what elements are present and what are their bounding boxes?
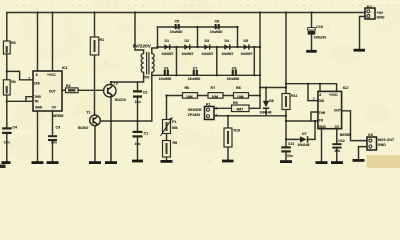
svg-text:+VCC: +VCC xyxy=(47,73,56,77)
svg-text:10n: 10n xyxy=(4,141,10,145)
svg-text:GEIGER: GEIGER xyxy=(188,108,202,112)
svg-text:10M: 10M xyxy=(186,95,193,99)
svg-text:10M: 10M xyxy=(237,95,244,99)
svg-text:R1: R1 xyxy=(100,38,105,42)
svg-text:THR: THR xyxy=(319,111,326,115)
svg-text:THR: THR xyxy=(34,95,41,99)
svg-text:R2: R2 xyxy=(66,84,71,88)
svg-text:R5: R5 xyxy=(173,141,178,145)
svg-text:R3: R3 xyxy=(11,41,16,45)
svg-text:C11: C11 xyxy=(288,142,294,146)
svg-text:ZP1320: ZP1320 xyxy=(188,113,200,117)
svg-text:C8: C8 xyxy=(215,19,220,23)
svg-text:10M: 10M xyxy=(212,95,219,99)
svg-text:C3: C3 xyxy=(56,125,61,129)
svg-text:1N4007: 1N4007 xyxy=(241,52,253,56)
svg-text:10u: 10u xyxy=(135,142,141,146)
svg-text:10u/630: 10u/630 xyxy=(210,30,223,34)
svg-text:C4: C4 xyxy=(12,126,17,130)
svg-text:K1: K1 xyxy=(206,103,211,107)
svg-text:8: 8 xyxy=(36,73,38,77)
svg-text:4M7: 4M7 xyxy=(237,107,244,111)
svg-text:TR1: TR1 xyxy=(143,75,150,79)
svg-text:D8: D8 xyxy=(269,99,274,103)
svg-text:BUZ10: BUZ10 xyxy=(115,98,126,102)
svg-text:22n: 22n xyxy=(287,154,293,158)
svg-text:10n/630: 10n/630 xyxy=(159,77,172,81)
svg-text:GND: GND xyxy=(319,125,327,129)
svg-text:50k: 50k xyxy=(172,126,178,130)
svg-text:GND: GND xyxy=(377,15,385,19)
svg-text:MO2 OUT: MO2 OUT xyxy=(378,138,395,142)
svg-text:C2: C2 xyxy=(143,91,148,95)
svg-text:8: 8 xyxy=(319,93,321,97)
svg-text:DIS: DIS xyxy=(34,81,40,85)
svg-text:10n: 10n xyxy=(334,149,340,153)
svg-text:7: 7 xyxy=(28,76,30,80)
svg-text:DIS: DIS xyxy=(319,99,325,103)
svg-text:1N4007: 1N4007 xyxy=(202,52,214,56)
svg-text:C6: C6 xyxy=(164,66,169,70)
svg-text:K3: K3 xyxy=(368,133,373,137)
svg-text:7: 7 xyxy=(313,97,315,101)
svg-text:GND: GND xyxy=(35,106,43,110)
svg-text:K2: K2 xyxy=(367,5,372,9)
svg-text:NE555: NE555 xyxy=(340,133,351,137)
svg-text:R6: R6 xyxy=(185,86,190,90)
svg-text:D1: D1 xyxy=(165,39,170,43)
svg-text:C7: C7 xyxy=(193,66,198,70)
svg-text:C1: C1 xyxy=(144,132,149,136)
svg-text:R4: R4 xyxy=(11,80,16,84)
svg-text:D3: D3 xyxy=(205,39,210,43)
svg-text:C5: C5 xyxy=(175,19,180,23)
svg-text:R9: R9 xyxy=(233,101,238,105)
svg-text:NE555: NE555 xyxy=(52,114,63,118)
svg-text:D4: D4 xyxy=(225,39,230,43)
svg-text:10n/630: 10n/630 xyxy=(188,77,201,81)
svg-text:1N4007: 1N4007 xyxy=(162,52,174,56)
svg-text:OUT: OUT xyxy=(49,90,56,94)
svg-text:C12: C12 xyxy=(338,139,345,143)
svg-text:T3: T3 xyxy=(114,82,118,86)
svg-text:GND: GND xyxy=(378,143,386,147)
svg-text:10u/630: 10u/630 xyxy=(170,30,183,34)
svg-text:C9: C9 xyxy=(232,66,237,70)
svg-text:1N4148: 1N4148 xyxy=(298,143,310,147)
svg-text:10n/630: 10n/630 xyxy=(227,77,240,81)
svg-text:P1: P1 xyxy=(172,120,176,124)
svg-text:R10: R10 xyxy=(234,129,241,133)
svg-text:1: 1 xyxy=(216,107,218,111)
svg-text:R8: R8 xyxy=(236,86,241,90)
svg-text:1N4148: 1N4148 xyxy=(260,110,272,114)
svg-text:BC547: BC547 xyxy=(78,126,89,130)
svg-text:TR: TR xyxy=(319,119,324,123)
svg-text:IC1: IC1 xyxy=(62,66,68,70)
svg-text:1N4007: 1N4007 xyxy=(182,52,194,56)
svg-text:C10: C10 xyxy=(316,25,323,29)
svg-text:D7: D7 xyxy=(302,132,307,136)
svg-text:10n: 10n xyxy=(51,141,57,145)
svg-text:R7: R7 xyxy=(211,86,216,90)
svg-text:100u/10: 100u/10 xyxy=(314,35,327,39)
svg-text:D5: D5 xyxy=(244,39,249,43)
svg-text:D2: D2 xyxy=(185,39,190,43)
svg-text:1N4007: 1N4007 xyxy=(222,52,234,56)
svg-text:OUT: OUT xyxy=(334,109,341,113)
svg-text:TR: TR xyxy=(34,100,39,104)
svg-text:+VCC: +VCC xyxy=(329,93,338,97)
svg-text:2: 2 xyxy=(216,113,218,117)
svg-text:R11: R11 xyxy=(291,94,297,98)
svg-text:10u: 10u xyxy=(135,100,141,104)
svg-text:IC2: IC2 xyxy=(343,86,349,90)
svg-text:T1: T1 xyxy=(86,110,90,114)
svg-text:8V/220V: 8V/220V xyxy=(133,44,152,49)
